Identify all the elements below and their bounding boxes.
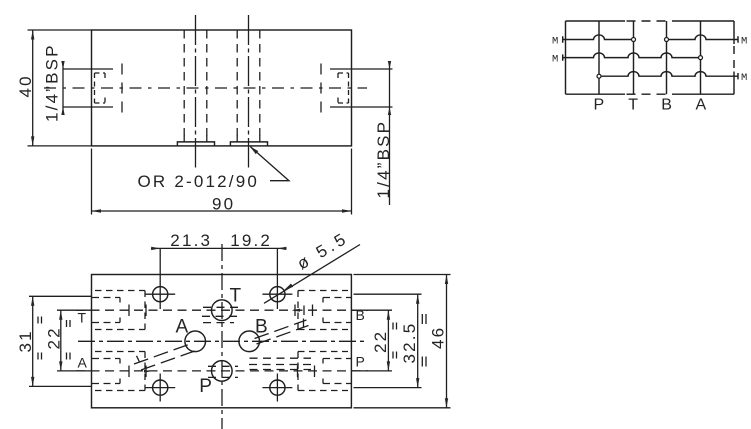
M row1 junction at B	[665, 38, 669, 42]
right port B inner dashed	[323, 298, 351, 323]
svg-text:22: 22	[371, 330, 390, 353]
svg-text:A: A	[176, 317, 189, 338]
dim 31 extension bottom	[29, 385, 92, 387]
svg-text:P: P	[199, 376, 212, 397]
diagonal passage left arrows	[137, 356, 140, 362]
dim 31 equal marks	[38, 317, 42, 360]
hole B centerline	[248, 15, 250, 168]
envelope top edge	[566, 20, 735, 22]
right port P ticks	[298, 366, 315, 378]
diagonal passage left wall2	[141, 351, 196, 371]
dim 90 line	[92, 210, 352, 212]
svg-text:1/4”BSP: 1/4”BSP	[374, 120, 393, 199]
dim 32.5 line	[417, 294, 419, 387]
mounting hole BL centerlines	[145, 374, 175, 402]
dim 46 line	[446, 275, 448, 408]
port P circle	[212, 361, 233, 382]
right port B ticks	[295, 305, 313, 317]
envelope left edge	[565, 21, 567, 94]
svg-text:M: M	[552, 54, 558, 66]
svg-text:T: T	[78, 310, 87, 326]
svg-text:90: 90	[212, 195, 235, 214]
svg-text:32.5: 32.5	[400, 322, 419, 364]
left port T outer dashed	[95, 291, 145, 330]
left BSP port extension top	[63, 68, 114, 70]
svg-text:M: M	[741, 36, 747, 48]
M row1 junction at T	[632, 38, 636, 42]
mounting hole TR centerlines	[262, 248, 292, 309]
left port A ticks	[129, 366, 146, 378]
port row centerline lower dashed	[76, 370, 368, 372]
svg-text:1/4”BSP: 1/4”BSP	[43, 43, 62, 122]
dim 32.5 equal marks	[422, 314, 426, 367]
line P	[598, 21, 600, 94]
svg-text:22: 22	[44, 326, 63, 349]
dim 40 line	[32, 30, 34, 146]
M row3 junction at P	[597, 74, 601, 78]
hole A dashed walls	[183, 30, 185, 136]
hole A centerline	[195, 15, 197, 168]
top edge extension left	[28, 29, 92, 31]
svg-text:21.3: 21.3	[170, 231, 212, 250]
left port T inner dashed	[92, 298, 120, 323]
diagonal passage right wall2	[257, 326, 309, 345]
dia 5.5 leader line	[264, 245, 360, 304]
mounting hole top-right	[270, 287, 285, 302]
left port A outer dashed	[95, 352, 145, 391]
mounting hole BR centerlines	[262, 374, 292, 402]
left BSP port extension bottom	[63, 106, 114, 108]
port A circle	[185, 331, 206, 352]
svg-text:B: B	[255, 317, 268, 338]
dim 31 line	[32, 296, 34, 386]
mounting hole bottom-left	[153, 380, 168, 395]
M row3 segment	[602, 72, 739, 80]
svg-text:T: T	[628, 97, 638, 114]
svg-text:M: M	[552, 36, 558, 48]
dim 32.5 extension bottom	[354, 387, 422, 389]
svg-text:31: 31	[16, 329, 35, 352]
svg-text:B: B	[661, 97, 672, 114]
line B	[666, 21, 668, 94]
dim 31 extension top	[29, 295, 92, 297]
port B circle	[239, 331, 260, 352]
svg-text:19.2: 19.2	[230, 231, 272, 250]
M row1 left segment	[563, 35, 631, 43]
plate outline front view	[92, 30, 352, 146]
right BSP port drill tip ticks	[320, 64, 322, 113]
OR leader line	[251, 147, 290, 181]
mounting hole bottom-right	[270, 380, 285, 395]
left BSP port drill tip ticks	[121, 64, 123, 113]
port row centerline upper dashed	[76, 309, 368, 311]
dim 90 extension right	[351, 149, 353, 215]
dim 22 right extension bottom	[352, 370, 392, 372]
svg-text:46: 46	[429, 326, 448, 349]
svg-text:P: P	[356, 354, 365, 370]
port T circle	[212, 300, 233, 321]
svg-text:A: A	[78, 355, 88, 371]
right BSP port extension top	[330, 68, 393, 70]
hidden bore lines near T	[202, 307, 240, 322]
hidden bore lines near P	[208, 358, 315, 377]
dim 22 left line	[60, 310, 62, 371]
dim 22 left extension top	[57, 309, 92, 311]
dim 90 extension left	[91, 149, 93, 215]
line T	[633, 21, 635, 94]
right BSP port extension bottom	[330, 106, 393, 108]
right BSP dim line	[389, 62, 391, 206]
mounting hole TL centerlines	[145, 248, 175, 309]
dim 21.3-19.2 line	[151, 247, 287, 249]
dim 22 right equal marks	[393, 323, 397, 359]
svg-text:OR 2-012/90: OR 2-012/90	[138, 172, 260, 191]
envelope right edge	[733, 21, 735, 94]
diagonal passage right wall1	[255, 320, 307, 339]
hole A o-ring groove	[177, 142, 214, 146]
left BSP dim line	[62, 62, 64, 115]
M row2 junction at A	[699, 56, 703, 60]
dim 46 extension bottom	[354, 407, 451, 409]
line A	[700, 21, 702, 94]
svg-text:A: A	[696, 97, 707, 114]
right BSP port dashed thread	[338, 73, 349, 103]
hole A groove ticks	[184, 135, 207, 142]
right port P inner dashed	[323, 359, 351, 384]
svg-text:40: 40	[16, 74, 35, 97]
envelope bottom edge	[566, 93, 735, 95]
dim 22 right line	[387, 310, 389, 371]
svg-text:M: M	[741, 72, 747, 84]
hole B groove ticks	[237, 135, 260, 142]
hole B dashed walls	[236, 30, 238, 136]
dim 22 right extension top	[352, 309, 392, 311]
bottom edge extension left	[28, 145, 92, 147]
svg-text:B: B	[356, 307, 365, 323]
M row2 segment	[563, 53, 698, 61]
horizontal centerline front view	[44, 87, 367, 89]
M row1 right segment	[669, 35, 738, 43]
svg-text:T: T	[230, 286, 242, 307]
vertical centerline T-P	[221, 244, 223, 429]
left BSP port dashed thread	[95, 73, 106, 103]
dim 22 left equal marks	[67, 320, 71, 360]
diagonal passage left wall1	[134, 344, 192, 365]
right port P outer dashed	[298, 352, 348, 391]
dim 46 extension top	[354, 274, 451, 276]
hole B o-ring groove	[230, 142, 267, 146]
plate outline top view	[92, 275, 352, 408]
dim 22 left extension bottom	[57, 370, 92, 372]
svg-text:P: P	[594, 97, 605, 114]
diagonal passage right end tick	[303, 319, 305, 328]
horizontal centerline A-B	[78, 340, 366, 342]
dim 32.5 extension top	[354, 293, 422, 295]
left port A inner dashed	[92, 359, 120, 384]
right port B outer dashed	[298, 291, 348, 330]
mounting hole top-left	[153, 287, 168, 302]
left port T ticks	[129, 305, 146, 317]
